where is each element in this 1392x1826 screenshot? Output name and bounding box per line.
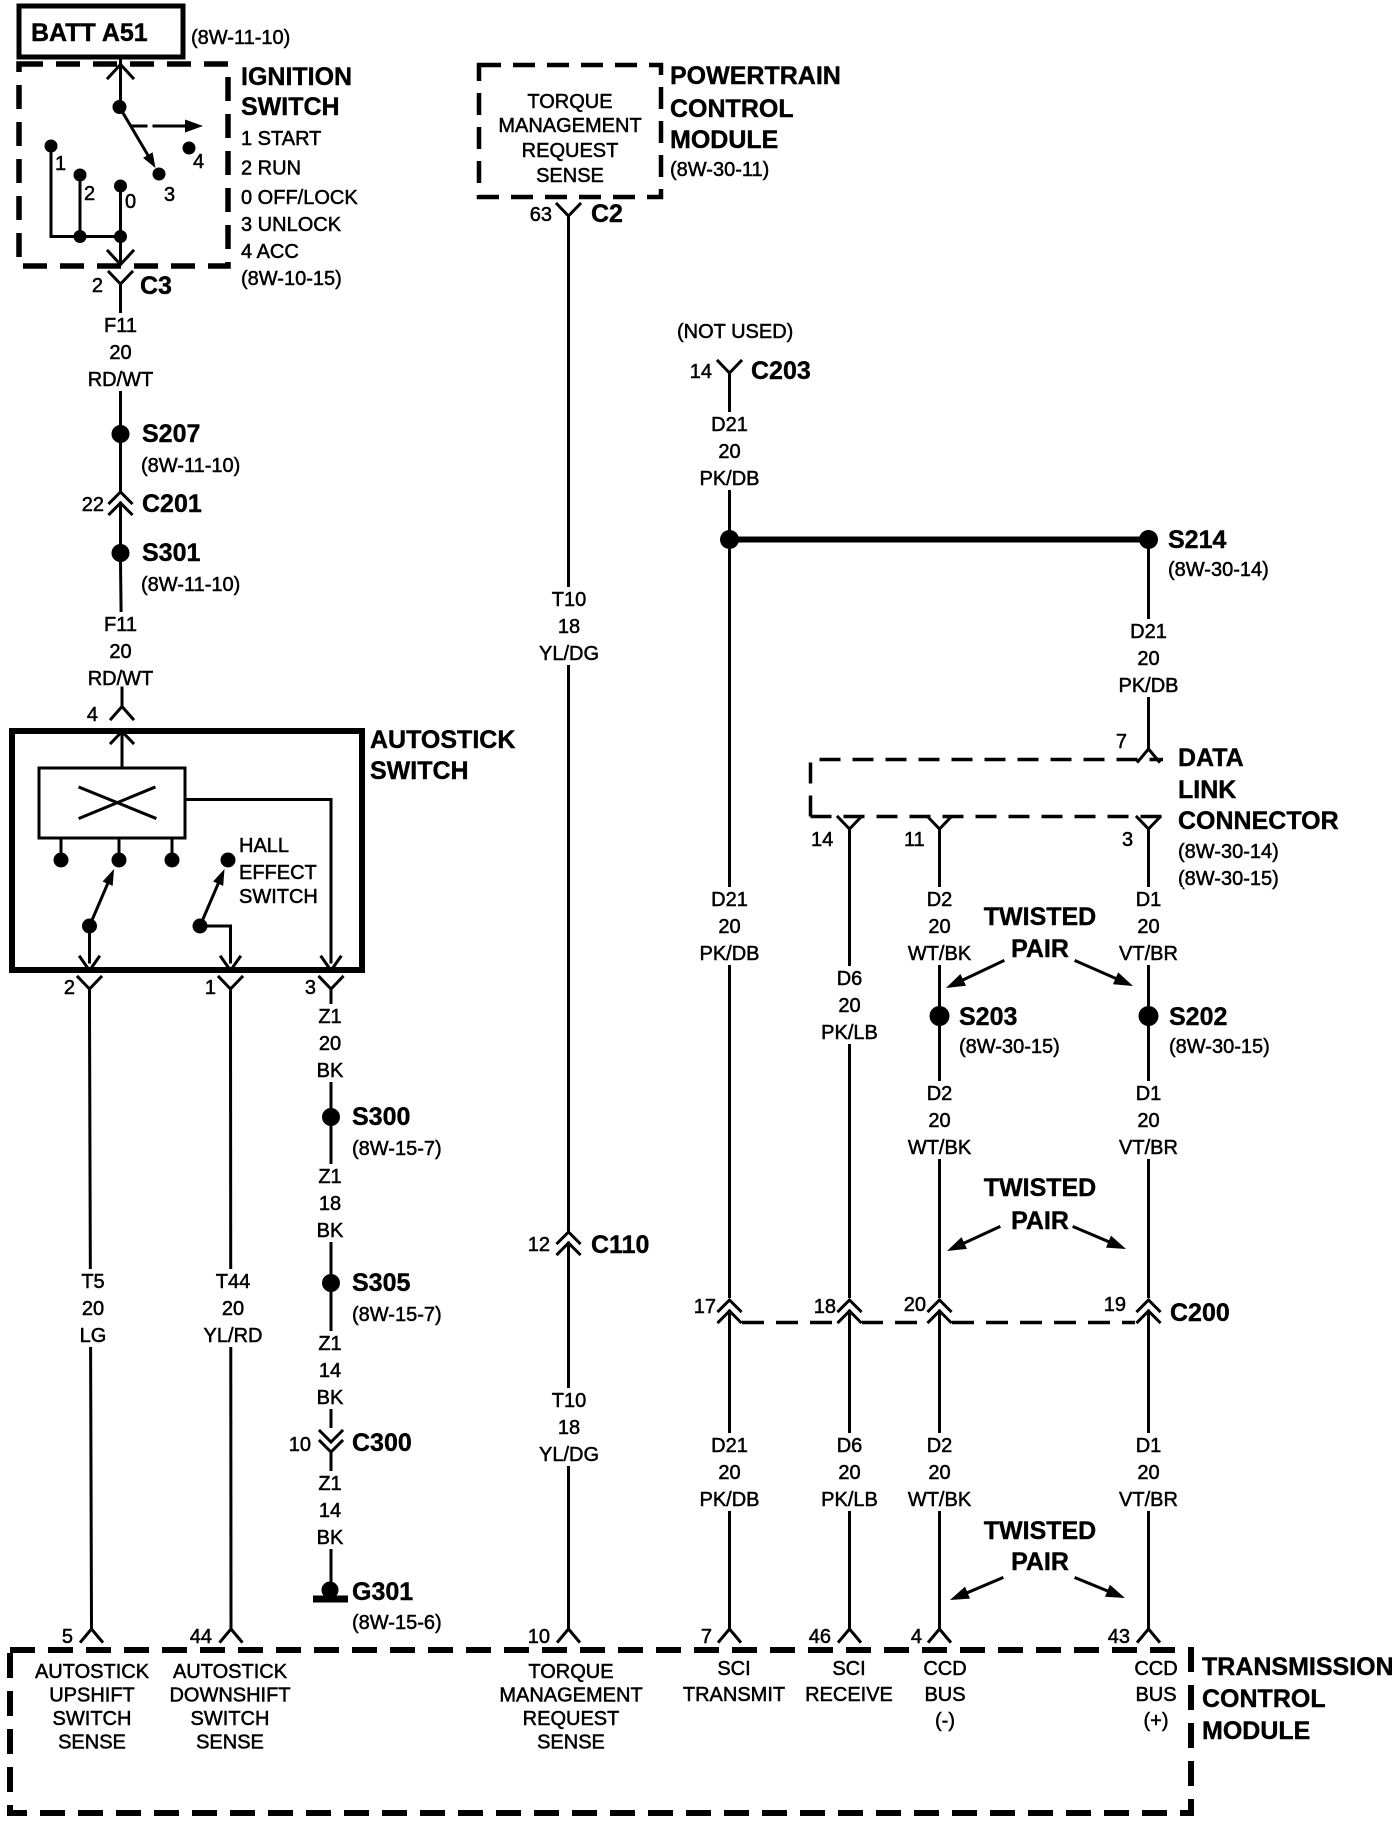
wire label D6	[816, 1433, 884, 1511]
twisted pair arrow left	[964, 1578, 1002, 1594]
contact 0	[114, 180, 127, 193]
svg-text:C200: C200	[1170, 1299, 1230, 1327]
svg-text:C110: C110	[591, 1231, 649, 1259]
svg-text:20: 20	[928, 1110, 950, 1132]
svg-text:PAIR: PAIR	[1011, 1548, 1069, 1576]
svg-text:D21: D21	[711, 414, 748, 436]
svg-text:SWITCH: SWITCH	[241, 93, 340, 121]
svg-text:SENSE: SENSE	[196, 1732, 264, 1754]
svg-text:(8W-15-7): (8W-15-7)	[352, 1304, 442, 1326]
arrow to ACC position	[133, 125, 146, 128]
svg-text:(8W-15-7): (8W-15-7)	[352, 1138, 442, 1160]
svg-text:SCI: SCI	[832, 1658, 865, 1680]
svg-text:20: 20	[718, 916, 740, 938]
svg-text:(8W-11-10): (8W-11-10)	[141, 574, 240, 596]
svg-text:YL/DG: YL/DG	[539, 1444, 599, 1466]
svg-text:REQUEST: REQUEST	[522, 140, 619, 162]
svg-text:S202: S202	[1169, 1003, 1227, 1031]
svg-text:CCD: CCD	[1134, 1658, 1177, 1680]
C200 pin 19	[1136, 1298, 1161, 1332]
svg-text:0 OFF/LOCK: 0 OFF/LOCK	[241, 187, 358, 209]
hall effect contact	[221, 853, 236, 868]
svg-text:C3: C3	[140, 272, 172, 300]
svg-text:TWISTED: TWISTED	[984, 903, 1097, 931]
svg-text:2 RUN: 2 RUN	[241, 158, 301, 180]
svg-text:20: 20	[838, 995, 860, 1017]
svg-text:22: 22	[82, 494, 104, 516]
svg-text:2: 2	[84, 183, 95, 205]
svg-text:1: 1	[55, 153, 66, 175]
svg-text:(8W-10-15): (8W-10-15)	[241, 268, 342, 290]
contact 2	[74, 169, 87, 182]
svg-text:(8W-30-11): (8W-30-11)	[670, 159, 769, 181]
contact 4	[183, 142, 196, 155]
wire label D1	[1115, 1433, 1183, 1511]
connector C203 pin 14	[718, 361, 741, 397]
connector pin 4 autostick	[121, 688, 124, 706]
svg-text:(8W-11-10): (8W-11-10)	[191, 27, 290, 49]
C200 pin 20	[927, 1298, 952, 1332]
svg-text:POWERTRAIN: POWERTRAIN	[670, 62, 841, 90]
C200 pin 18	[837, 1298, 862, 1332]
svg-text:PK/DB: PK/DB	[1118, 675, 1178, 697]
svg-text:BK: BK	[317, 1220, 344, 1242]
svg-text:D1: D1	[1136, 1435, 1162, 1457]
twisted pair arrow right	[1076, 961, 1119, 980]
svg-text:4: 4	[911, 1626, 922, 1648]
svg-text:18: 18	[558, 616, 580, 638]
ignition switch movable arm	[120, 107, 150, 158]
svg-text:MODULE: MODULE	[1202, 1717, 1310, 1745]
downshift switch arm	[193, 919, 208, 934]
svg-text:14: 14	[811, 829, 833, 851]
connector C110 pin 12	[556, 1231, 581, 1256]
twisted pair arrow left	[960, 961, 1003, 982]
wire	[200, 926, 231, 962]
svg-text:D6: D6	[837, 968, 863, 990]
svg-text:REQUEST: REQUEST	[523, 1708, 620, 1730]
svg-text:20: 20	[718, 441, 740, 463]
DLC pin 3	[1137, 817, 1160, 853]
wire label D21	[696, 1433, 764, 1511]
svg-text:1 START: 1 START	[241, 128, 321, 150]
svg-text:C300: C300	[352, 1429, 412, 1457]
svg-text:BK: BK	[317, 1060, 344, 1082]
svg-text:20: 20	[109, 342, 131, 364]
svg-text:C2: C2	[591, 200, 623, 228]
svg-text:MANAGEMENT: MANAGEMENT	[498, 115, 641, 137]
svg-text:3: 3	[305, 977, 316, 999]
TCM pin 44	[221, 1629, 242, 1642]
svg-text:20: 20	[928, 1462, 950, 1484]
entry arrow at ignition box top	[108, 65, 133, 79]
wire Z1 to ground	[330, 1013, 333, 1583]
junction dot	[114, 230, 127, 243]
svg-text:14: 14	[319, 1360, 341, 1382]
svg-text:12: 12	[528, 1234, 550, 1256]
splice S203	[930, 1006, 950, 1026]
wire label D2	[906, 1433, 974, 1511]
svg-text:WT/BK: WT/BK	[908, 1489, 972, 1511]
svg-text:3: 3	[1122, 829, 1133, 851]
contact 1	[45, 140, 58, 153]
svg-text:PK/LB: PK/LB	[821, 1022, 878, 1044]
svg-text:RD/WT: RD/WT	[88, 369, 154, 391]
svg-text:(NOT USED): (NOT USED)	[677, 321, 793, 343]
twisted pair arrow right	[1076, 1578, 1111, 1592]
svg-text:AUTOSTICK: AUTOSTICK	[370, 726, 515, 754]
svg-text:D1: D1	[1136, 1083, 1162, 1105]
svg-text:43: 43	[1108, 1626, 1130, 1648]
TCM pin 4	[929, 1629, 950, 1642]
svg-text:10: 10	[528, 1626, 550, 1648]
svg-text:TORQUE: TORQUE	[528, 1661, 613, 1683]
TCM pin 5	[81, 1629, 102, 1642]
TCM pin 43	[1138, 1629, 1159, 1642]
svg-text:S300: S300	[352, 1103, 410, 1131]
splice S301	[112, 544, 130, 562]
svg-text:20: 20	[1137, 916, 1159, 938]
svg-text:CCD: CCD	[923, 1658, 966, 1680]
svg-text:TWISTED: TWISTED	[984, 1517, 1097, 1545]
svg-text:T5: T5	[81, 1271, 104, 1293]
svg-text:0: 0	[125, 191, 136, 213]
svg-text:1: 1	[205, 977, 216, 999]
autostick switch box	[12, 731, 362, 970]
DLC pin 11	[928, 817, 951, 853]
junction dot	[720, 530, 739, 549]
svg-text:T10: T10	[552, 589, 586, 611]
svg-text:C203: C203	[751, 357, 811, 385]
svg-text:S214: S214	[1168, 526, 1226, 554]
ground G301	[322, 1582, 339, 1599]
svg-text:46: 46	[809, 1626, 831, 1648]
svg-text:D1: D1	[1136, 889, 1162, 911]
svg-text:S301: S301	[142, 539, 200, 567]
wire F11 20 RD/WT	[119, 308, 122, 425]
svg-text:18: 18	[558, 1417, 580, 1439]
svg-text:S203: S203	[959, 1003, 1017, 1031]
connector pin 3	[320, 977, 343, 1013]
svg-text:7: 7	[1116, 731, 1127, 753]
svg-text:S305: S305	[352, 1269, 410, 1297]
connector pin 1	[219, 977, 242, 1013]
svg-text:BK: BK	[317, 1527, 344, 1549]
splice S202	[1139, 1006, 1159, 1026]
wire T44 20 YL/RD	[229, 1013, 233, 1628]
svg-text:MANAGEMENT: MANAGEMENT	[499, 1685, 642, 1707]
svg-text:AUTOSTICK: AUTOSTICK	[173, 1661, 288, 1683]
svg-text:HALL: HALL	[239, 835, 289, 857]
contact 3	[153, 168, 166, 181]
ignition switch box	[19, 64, 228, 266]
svg-text:G301: G301	[352, 1578, 413, 1606]
hall effect output wire	[185, 800, 331, 963]
wire contact2 down	[79, 175, 82, 237]
svg-text:D2: D2	[927, 1435, 953, 1457]
svg-text:20: 20	[1137, 1462, 1159, 1484]
svg-text:C201: C201	[142, 490, 202, 518]
svg-text:(8W-11-10): (8W-11-10)	[141, 455, 240, 477]
svg-text:TWISTED: TWISTED	[984, 1174, 1097, 1202]
svg-text:14: 14	[690, 361, 712, 383]
svg-text:YL/RD: YL/RD	[204, 1325, 263, 1347]
svg-text:3 UNLOCK: 3 UNLOCK	[241, 214, 342, 236]
TCM pin 7	[719, 1629, 740, 1642]
wire T10 18 YL/DG	[567, 240, 570, 1628]
transmission control module box	[10, 1650, 1191, 1813]
TCM pin 46	[839, 1629, 860, 1642]
wire	[88, 926, 91, 962]
svg-text:(-): (-)	[935, 1710, 955, 1732]
connector C3 pin 2	[109, 272, 132, 308]
svg-text:Z1: Z1	[318, 1166, 341, 1188]
svg-text:UPSHIFT: UPSHIFT	[49, 1685, 135, 1707]
DLC pin 7 connector	[1138, 749, 1159, 762]
svg-text:CONTROL: CONTROL	[670, 95, 794, 123]
svg-text:Z1: Z1	[318, 1333, 341, 1355]
wire T5 20 LG	[90, 1013, 92, 1628]
DLC pin 14	[838, 817, 861, 853]
wire	[119, 514, 122, 544]
connector C200 dashed line	[742, 1321, 1135, 1325]
svg-text:5: 5	[62, 1626, 73, 1648]
wire D21 20 PK/DB right	[1147, 549, 1150, 749]
svg-text:Z1: Z1	[318, 1006, 341, 1028]
svg-text:SWITCH: SWITCH	[370, 757, 469, 785]
svg-text:SWITCH: SWITCH	[191, 1708, 270, 1730]
svg-text:20: 20	[109, 641, 131, 663]
svg-text:PAIR: PAIR	[1011, 935, 1069, 963]
stub contacts below resolver	[60, 838, 63, 853]
svg-text:BUS: BUS	[1135, 1684, 1176, 1706]
svg-text:4 ACC: 4 ACC	[241, 241, 299, 263]
svg-text:2: 2	[64, 977, 75, 999]
twisted pair arrow left	[961, 1227, 999, 1245]
svg-text:D6: D6	[837, 1435, 863, 1457]
svg-text:MODULE: MODULE	[670, 126, 778, 154]
svg-text:CONNECTOR: CONNECTOR	[1178, 807, 1339, 835]
bus wire bottom of switch	[51, 235, 121, 238]
connector pin 2	[78, 977, 101, 1013]
svg-text:D21: D21	[1130, 621, 1167, 643]
splice S207	[112, 425, 130, 443]
splice S214	[1139, 530, 1158, 549]
entry arrow inside box	[111, 732, 133, 744]
svg-text:(8W-30-14): (8W-30-14)	[1168, 559, 1269, 581]
svg-text:D2: D2	[927, 1083, 953, 1105]
svg-text:VT/BR: VT/BR	[1119, 1489, 1178, 1511]
svg-text:LG: LG	[80, 1325, 107, 1347]
svg-text:2: 2	[92, 275, 103, 297]
svg-text:20: 20	[928, 916, 950, 938]
svg-text:20: 20	[222, 1298, 244, 1320]
svg-text:SWITCH: SWITCH	[53, 1708, 132, 1730]
twisted pair arrow right	[1074, 1227, 1112, 1243]
svg-text:10: 10	[289, 1434, 311, 1456]
C200 pin 17	[717, 1298, 742, 1332]
svg-text:4: 4	[193, 151, 204, 173]
svg-text:D21: D21	[711, 889, 748, 911]
svg-text:(+): (+)	[1144, 1710, 1169, 1732]
svg-text:CONTROL: CONTROL	[1202, 1685, 1326, 1713]
svg-text:20: 20	[904, 1294, 926, 1316]
svg-text:SENSE: SENSE	[537, 1732, 605, 1754]
svg-text:F11: F11	[104, 614, 137, 636]
wire	[119, 443, 122, 492]
svg-text:7: 7	[701, 1626, 712, 1648]
svg-text:20: 20	[1137, 648, 1159, 670]
svg-text:S207: S207	[142, 420, 200, 448]
svg-text:20: 20	[1137, 1110, 1159, 1132]
svg-text:44: 44	[190, 1626, 212, 1648]
wire D2 20 WT/BK	[938, 845, 941, 1628]
svg-text:PK/DB: PK/DB	[699, 943, 759, 965]
splice S300	[322, 1108, 340, 1126]
svg-text:20: 20	[319, 1033, 341, 1055]
svg-text:SWITCH: SWITCH	[239, 886, 318, 908]
battery feed box BATT A51	[19, 6, 183, 57]
svg-text:TRANSMISSION: TRANSMISSION	[1202, 1653, 1392, 1681]
wire D6 20 PK/LB	[848, 845, 851, 1628]
svg-text:EFFECT: EFFECT	[239, 862, 317, 884]
resolver box with X	[39, 768, 185, 838]
svg-text:IGNITION: IGNITION	[241, 63, 352, 91]
svg-text:PAIR: PAIR	[1011, 1207, 1069, 1235]
junction dot	[74, 230, 87, 243]
wire batt to ignition switch	[119, 57, 122, 107]
upshift switch arm	[82, 919, 97, 934]
svg-text:(8W-30-15): (8W-30-15)	[1178, 868, 1279, 890]
svg-text:BK: BK	[317, 1387, 344, 1409]
svg-text:SENSE: SENSE	[58, 1732, 126, 1754]
svg-text:WT/BK: WT/BK	[908, 943, 972, 965]
wire contact1 down	[50, 146, 53, 237]
wire D1 20 VT/BR	[1147, 845, 1150, 1628]
svg-text:14: 14	[319, 1500, 341, 1522]
svg-text:LINK: LINK	[1178, 776, 1236, 804]
svg-text:WT/BK: WT/BK	[908, 1137, 972, 1159]
wire F11 20 RD/WT	[121, 562, 123, 688]
svg-text:63: 63	[530, 204, 552, 226]
svg-text:11: 11	[904, 829, 925, 851]
svg-text:D2: D2	[927, 889, 953, 911]
svg-text:TORQUE: TORQUE	[527, 91, 612, 113]
svg-text:AUTOSTICK: AUTOSTICK	[35, 1661, 150, 1683]
svg-text:(8W-30-15): (8W-30-15)	[1169, 1036, 1270, 1058]
svg-text:(8W-30-15): (8W-30-15)	[959, 1036, 1060, 1058]
svg-text:T10: T10	[552, 1390, 586, 1412]
svg-text:F11: F11	[104, 315, 137, 337]
ignition switch pivot contact	[113, 100, 127, 114]
svg-text:19: 19	[1104, 1294, 1126, 1316]
wire contact0 down to exit	[119, 186, 122, 263]
svg-text:BATT A51: BATT A51	[31, 19, 148, 47]
svg-text:18: 18	[319, 1193, 341, 1215]
svg-text:SENSE: SENSE	[536, 165, 604, 187]
svg-text:18: 18	[814, 1296, 836, 1318]
svg-text:PK/DB: PK/DB	[699, 468, 759, 490]
splice S305	[322, 1274, 340, 1292]
svg-text:YL/DG: YL/DG	[539, 643, 599, 665]
svg-text:3: 3	[164, 184, 175, 206]
svg-text:T44: T44	[216, 1271, 250, 1293]
exit arrow at ignition box bottom	[108, 251, 133, 265]
svg-text:BUS: BUS	[924, 1684, 965, 1706]
svg-text:(8W-15-6): (8W-15-6)	[352, 1612, 442, 1634]
svg-text:17: 17	[694, 1296, 716, 1318]
junction wire to S214	[730, 537, 1149, 543]
svg-text:4: 4	[87, 704, 98, 726]
torque management request sense box	[479, 65, 661, 197]
TCM pin 10	[558, 1629, 579, 1642]
svg-text:VT/BR: VT/BR	[1119, 1137, 1178, 1159]
svg-text:TRANSMIT: TRANSMIT	[683, 1684, 785, 1706]
connector C2 pin 63	[557, 204, 580, 240]
svg-text:20: 20	[718, 1462, 740, 1484]
wire D21 20 PK/DB	[728, 397, 731, 1628]
svg-text:(8W-30-14): (8W-30-14)	[1178, 841, 1279, 863]
svg-text:DATA: DATA	[1178, 744, 1244, 772]
svg-text:D21: D21	[711, 1435, 748, 1457]
connector C201 pin 22	[110, 492, 132, 526]
svg-text:Z1: Z1	[318, 1473, 341, 1495]
svg-text:20: 20	[838, 1462, 860, 1484]
svg-text:DOWNSHIFT: DOWNSHIFT	[169, 1685, 290, 1707]
svg-text:PK/DB: PK/DB	[699, 1489, 759, 1511]
svg-text:SCI: SCI	[717, 1658, 750, 1680]
svg-text:VT/BR: VT/BR	[1119, 943, 1178, 965]
svg-text:PK/LB: PK/LB	[821, 1489, 878, 1511]
connector C300 pin 10	[318, 1428, 344, 1453]
svg-text:20: 20	[82, 1298, 104, 1320]
data link connector box	[811, 760, 1164, 817]
svg-text:RECEIVE: RECEIVE	[805, 1684, 893, 1706]
